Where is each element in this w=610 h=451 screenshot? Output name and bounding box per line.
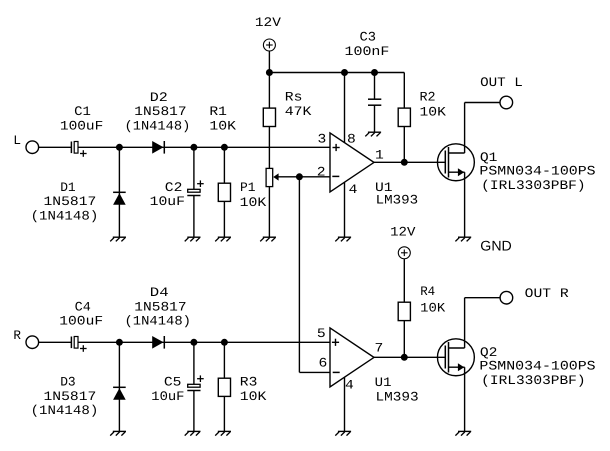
ground Q2 source	[455, 431, 471, 435]
transistor Q1 PSMN034-100PS	[437, 144, 595, 193]
node P1 wiper junction	[296, 173, 303, 180]
resistor R2 10K	[398, 89, 446, 126]
wire wiper down to pin6	[298, 177, 300, 373]
ground D1	[110, 237, 126, 241]
svg-text:12V: 12V	[390, 225, 416, 240]
svg-text:(1N4148): (1N4148)	[31, 403, 99, 418]
svg-text:R3: R3	[240, 375, 258, 390]
svg-text:6: 6	[319, 356, 328, 371]
svg-text:D2: D2	[150, 90, 168, 105]
potentiometer P1 10K	[240, 168, 279, 209]
node C2 junction	[190, 144, 197, 151]
capacitor C3	[345, 29, 390, 105]
wire into opamp pin6	[299, 371, 330, 373]
wire opamp B pin4	[344, 377, 346, 431]
svg-text:D3: D3	[60, 375, 75, 390]
wire rail to R2	[403, 73, 405, 109]
svg-text:8: 8	[347, 131, 356, 146]
svg-text:1N5817: 1N5817	[134, 299, 186, 314]
svg-text:(1N4148): (1N4148)	[31, 209, 99, 224]
ground Q1 source	[455, 237, 471, 241]
wire P1 to ground	[268, 187, 270, 238]
wire wiper to opamp pin2	[278, 176, 330, 178]
label R1 10K	[209, 104, 236, 133]
wire opamp A output to Q1 gate	[374, 161, 445, 163]
resistor Rs 47K	[263, 89, 311, 126]
svg-text:3: 3	[318, 131, 327, 146]
input terminal R	[13, 328, 38, 349]
wire C5 top	[193, 342, 195, 384]
svg-text:10uF: 10uF	[150, 194, 185, 209]
input terminal L	[13, 133, 38, 154]
resistor R3 10K	[218, 375, 266, 404]
wire opamp A pin4	[344, 182, 346, 237]
wire C3 top	[374, 73, 376, 100]
ground U1b pin4	[335, 431, 351, 435]
wire C4 to opamp pin5	[78, 341, 330, 343]
svg-text:47K: 47K	[285, 104, 312, 119]
svg-text:U1: U1	[375, 375, 392, 390]
wire Q2 source down	[464, 367, 466, 431]
node R1 junction	[221, 144, 228, 151]
wire Q1 source down	[464, 172, 466, 237]
svg-text:OUT L: OUT L	[480, 75, 523, 90]
node output/R2 junction	[401, 159, 408, 166]
svg-text:C3: C3	[360, 29, 377, 44]
svg-text:1: 1	[375, 147, 384, 162]
svg-text:10K: 10K	[209, 118, 236, 133]
wire R to C4	[39, 341, 72, 343]
svg-text:R1: R1	[209, 104, 227, 119]
ground D3	[110, 431, 126, 435]
diode D3 1N5817	[31, 375, 126, 418]
svg-text:D4: D4	[150, 285, 169, 300]
svg-text:(IRL3303PBF): (IRL3303PBF)	[481, 178, 585, 193]
svg-text:C2: C2	[165, 180, 183, 195]
wire R4 to output node	[403, 321, 405, 358]
svg-text:PSMN034-100PS: PSMN034-100PS	[479, 359, 595, 374]
svg-text:5: 5	[317, 326, 326, 341]
svg-text:4: 4	[349, 182, 358, 197]
node rail/pin8 junction	[341, 69, 348, 76]
wire Q2 drain up	[464, 298, 466, 348]
wire C3 bottom	[374, 105, 376, 132]
svg-text:10uF: 10uF	[151, 389, 184, 404]
capacitor C1 100uF	[60, 104, 103, 157]
node C5 junction	[190, 339, 197, 346]
svg-text:10K: 10K	[240, 195, 267, 210]
svg-text:100uF: 100uF	[60, 118, 103, 133]
wire 12V stem (bottom)	[403, 259, 405, 303]
diode D2 1N5817	[125, 90, 191, 154]
wire C1 to opamp pin3	[78, 146, 330, 148]
ground P1	[260, 237, 276, 241]
svg-text:LM393: LM393	[376, 193, 419, 208]
resistor R4 10K	[398, 284, 445, 321]
wire C2 top	[193, 147, 195, 189]
output terminal OUT R	[500, 286, 569, 304]
svg-text:10K: 10K	[420, 104, 447, 119]
node R3 junction	[221, 339, 228, 346]
node rail/C3 junction	[371, 69, 378, 76]
ground C2	[185, 237, 201, 241]
resistor R1 body	[218, 183, 230, 201]
wire to OUT R	[465, 297, 501, 299]
wire R3 bottom	[223, 396, 225, 431]
svg-text:P1: P1	[240, 180, 256, 195]
wire R3 top	[223, 342, 225, 378]
wire R1 bottom	[223, 201, 225, 237]
svg-text:C5: C5	[164, 375, 182, 390]
svg-text:100nF: 100nF	[345, 44, 390, 59]
svg-text:R: R	[13, 328, 21, 343]
wire Q1 drain up	[464, 103, 466, 154]
ground U1a pin4	[335, 237, 351, 241]
capacitor C2 10uF	[150, 180, 204, 209]
wire to OUT L	[465, 102, 500, 104]
svg-text:100uF: 100uF	[59, 314, 103, 329]
svg-text:L: L	[13, 133, 21, 148]
wire C5 bottom	[193, 391, 195, 432]
power +12V terminal (bottom)	[390, 225, 416, 259]
svg-text:D1: D1	[60, 180, 76, 195]
svg-text:7: 7	[375, 341, 384, 356]
capacitor C4 100uF	[59, 299, 103, 352]
wire opamp pin8	[344, 73, 346, 143]
ground R1	[215, 237, 231, 241]
svg-text:C4: C4	[75, 299, 91, 314]
op-amp U1 comparator B	[317, 326, 419, 404]
svg-text:2: 2	[317, 164, 326, 179]
wire R2 to output node	[403, 127, 405, 163]
node output/R4 junction	[401, 354, 408, 361]
op-amp U1 comparator A	[317, 131, 418, 207]
svg-text:GND: GND	[480, 238, 512, 254]
diode D4 1N5817	[125, 285, 192, 349]
node rail/Rs junction	[266, 69, 273, 76]
svg-text:1N5817: 1N5817	[44, 389, 97, 404]
svg-text:12V: 12V	[255, 15, 281, 30]
power +12V terminal (top)	[255, 15, 281, 51]
svg-text:(IRL3303PBF): (IRL3303PBF)	[481, 373, 585, 388]
svg-text:R2: R2	[420, 89, 436, 104]
wire D1 column	[118, 147, 120, 237]
ground C5	[185, 431, 201, 435]
wire R1 top	[223, 147, 225, 183]
diode D1 1N5817	[31, 180, 126, 224]
wire Rs to P1	[268, 127, 270, 169]
svg-text:LM393: LM393	[376, 389, 419, 404]
svg-text:1N5817: 1N5817	[44, 194, 97, 209]
node D1 junction	[116, 144, 123, 151]
svg-text:(1N4148): (1N4148)	[125, 118, 191, 133]
ground C3	[365, 132, 381, 136]
svg-text:10K: 10K	[240, 389, 267, 404]
output terminal OUT L	[480, 75, 523, 109]
wire D3 column	[118, 342, 120, 431]
wire 12V stem (top)	[268, 51, 270, 73]
wire +12V rail (top)	[269, 72, 404, 74]
label GND	[480, 238, 512, 254]
svg-text:C1: C1	[74, 104, 91, 119]
svg-text:4: 4	[345, 377, 354, 392]
wire rail to Rs	[268, 73, 270, 109]
svg-text:Rs: Rs	[285, 89, 303, 104]
wire L to C1	[39, 146, 72, 148]
svg-text:PSMN034-100PS: PSMN034-100PS	[479, 164, 595, 179]
capacitor C5 10uF	[151, 375, 203, 404]
svg-text:OUT R: OUT R	[525, 286, 569, 301]
svg-text:(1N4148): (1N4148)	[125, 314, 192, 329]
svg-text:10K: 10K	[420, 301, 445, 316]
transistor Q2 PSMN034-100PS	[437, 339, 595, 388]
wire C2 bottom	[193, 196, 195, 238]
node D3 junction	[116, 339, 123, 346]
ground R3	[215, 431, 231, 435]
svg-text:R4: R4	[420, 284, 435, 299]
svg-text:1N5817: 1N5817	[134, 104, 186, 119]
wire opamp B output to Q2 gate	[374, 356, 445, 358]
